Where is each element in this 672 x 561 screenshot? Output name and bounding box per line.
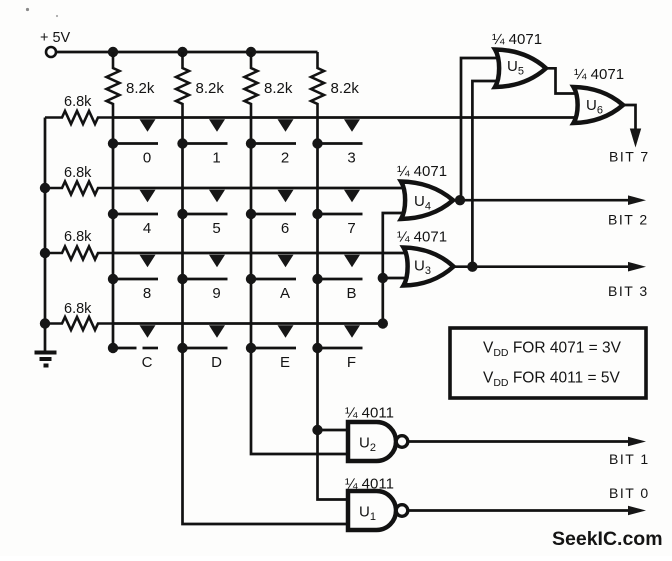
speck artifact top-left <box>26 8 29 11</box>
svg-text:8.2k: 8.2k <box>331 80 360 97</box>
svg-text:8.2k: 8.2k <box>126 80 155 97</box>
svg-text:¼ 4071: ¼ 4071 <box>492 31 542 48</box>
wire U6 output BIT7 <box>623 105 636 130</box>
arrow BIT7 <box>630 129 641 148</box>
junction bus-row2 <box>40 183 50 193</box>
junction bus-row3 <box>40 248 50 258</box>
wire row1 <box>113 116 582 119</box>
op-amp U5 OR gate <box>495 50 546 88</box>
svg-text:¼ 4011: ¼ 4011 <box>345 405 394 422</box>
svg-text:0: 0 <box>143 150 151 167</box>
key 8 switch <box>108 255 158 284</box>
key 2 switch <box>246 119 296 148</box>
svg-text:B: B <box>346 285 356 302</box>
svg-text:7: 7 <box>347 220 355 237</box>
op-amp U4 OR gate <box>401 182 453 220</box>
svg-text:6.8k: 6.8k <box>64 165 92 181</box>
wire top rail <box>57 51 318 54</box>
key 1 switch <box>177 119 227 148</box>
junction U3 tap <box>378 273 388 283</box>
svg-text:¼ 4071: ¼ 4071 <box>574 66 624 83</box>
wire row2 <box>113 187 408 190</box>
svg-text:8: 8 <box>143 285 151 302</box>
svg-text:9: 9 <box>212 285 220 302</box>
resistor R1 8.2k col1 <box>107 52 120 118</box>
svg-text:+ 5V: + 5V <box>40 30 71 46</box>
wire U5 output to U6 <box>546 68 580 93</box>
wire BIT2 line <box>452 199 630 202</box>
key 6 switch <box>246 190 296 219</box>
op-amp U3 OR gate <box>404 248 454 286</box>
junction rail-col2 <box>177 47 187 57</box>
resistor R5 6.8k row1 <box>45 111 113 124</box>
svg-text:¼ 4011: ¼ 4011 <box>345 476 394 493</box>
key 9 switch <box>177 255 227 284</box>
svg-text:D: D <box>211 354 222 371</box>
resistor R7 6.8k row3 <box>45 247 113 260</box>
junction rail-col3 <box>246 47 256 57</box>
wire column4 <box>318 118 349 500</box>
svg-text:E: E <box>280 354 290 371</box>
svg-text:3: 3 <box>347 150 355 167</box>
svg-text:8.2k: 8.2k <box>196 80 225 97</box>
wire column1 <box>112 118 115 349</box>
svg-text:BIT 3: BIT 3 <box>608 283 649 299</box>
junction row4 end <box>378 318 388 328</box>
wire col4 to U2 input <box>318 429 349 432</box>
key 0 switch <box>108 119 158 148</box>
svg-text:2: 2 <box>281 150 289 167</box>
junction rail-col1 <box>108 47 118 57</box>
key C switch <box>108 325 158 353</box>
svg-text:BIT 0: BIT 0 <box>609 485 650 501</box>
transistor U2 NAND gate <box>348 422 408 461</box>
junction col4-U2 <box>312 425 322 435</box>
wire column3 <box>251 118 348 455</box>
svg-text:6.8k: 6.8k <box>64 94 92 110</box>
svg-text:BIT 7: BIT 7 <box>609 149 650 165</box>
key F switch <box>312 325 362 353</box>
svg-text:A: A <box>280 285 290 302</box>
wire tap to U3 lower input <box>383 277 410 280</box>
svg-text:5: 5 <box>212 220 220 237</box>
note box <box>450 328 646 398</box>
svg-text:F: F <box>347 354 356 371</box>
arrow BIT2 <box>628 195 646 205</box>
op-amp U6 OR gate <box>574 87 624 123</box>
key E switch <box>246 325 296 353</box>
svg-text:¼ 4071: ¼ 4071 <box>397 229 447 246</box>
key 3 switch <box>312 119 362 148</box>
svg-text:6.8k: 6.8k <box>64 229 92 245</box>
svg-text:8.2k: 8.2k <box>264 80 293 97</box>
svg-text:SeekIC.com: SeekIC.com <box>552 528 663 550</box>
key 7 switch <box>312 190 362 219</box>
wire BIT3 line <box>453 265 631 268</box>
key 4 switch <box>108 190 158 219</box>
junction bus-row4 <box>40 318 50 328</box>
resistor R8 6.8k row4 <box>45 317 113 330</box>
svg-text:C: C <box>142 354 153 371</box>
wire row4 to U4/U3 inputs <box>383 213 408 324</box>
wire U3out to U5 lower input <box>472 81 501 267</box>
key A switch <box>246 255 296 284</box>
resistor R6 6.8k row2 <box>45 182 113 195</box>
junction U3 output <box>467 262 477 272</box>
wire U4out to U5 upper input <box>461 58 501 200</box>
transistor U1 NAND gate <box>348 491 408 530</box>
wire left bus <box>44 118 47 352</box>
svg-text:BIT 1: BIT 1 <box>609 451 650 467</box>
ground <box>35 353 57 366</box>
wire BIT0 line <box>408 509 630 512</box>
resistor R2 8.2k col2 <box>176 52 189 118</box>
svg-text:6.8k: 6.8k <box>64 301 92 317</box>
svg-text:BIT 2: BIT 2 <box>608 212 649 228</box>
junction U4 output <box>455 195 465 205</box>
svg-text:4: 4 <box>143 220 151 237</box>
svg-text:¼ 4071: ¼ 4071 <box>397 163 447 180</box>
speck artifact 2 <box>56 15 58 17</box>
key 5 switch <box>177 190 227 219</box>
key B switch <box>312 255 362 284</box>
key D switch <box>177 325 227 353</box>
+5V terminal <box>46 47 56 57</box>
resistor R4 8.2k col4 <box>311 52 324 118</box>
wire column2 <box>183 118 349 525</box>
wire row4 <box>113 322 383 325</box>
arrow BIT3 <box>628 262 646 272</box>
arrow BIT0 <box>628 506 646 516</box>
svg-text:6: 6 <box>281 220 289 237</box>
resistor R3 8.2k col3 <box>245 52 258 118</box>
svg-text:1: 1 <box>212 150 220 167</box>
wire row3 <box>113 252 410 255</box>
wire BIT1 line <box>408 440 630 443</box>
arrow BIT1 <box>628 437 646 447</box>
